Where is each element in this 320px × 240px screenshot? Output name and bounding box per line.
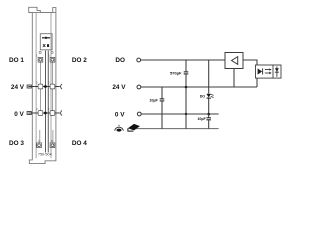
clamp hole right below LED box	[51, 51, 53, 53]
wire optocoupler to 24V rail	[256, 78, 258, 87]
inner left wall	[35, 13, 37, 158]
module body outline	[29, 7, 56, 158]
svg-text:DO: DO	[200, 94, 206, 98]
status LED diode symbol	[207, 94, 214, 98]
wire right terminal column rows 2-3	[51, 89, 53, 111]
wire vertical C2 branch	[161, 87, 163, 129]
0V feed plug symbol	[27, 112, 31, 115]
terminal circle 0V	[137, 112, 141, 116]
module foot (DIN rail)	[29, 159, 56, 164]
terminal DO2 (pin 5)	[50, 57, 55, 62]
module top edge	[29, 11, 56, 13]
wire stub to DO4 terminal	[52, 130, 54, 143]
svg-text:24 V: 24 V	[11, 84, 25, 91]
svg-text:DO 1: DO 1	[9, 57, 24, 64]
wire left terminal column rows 2-3	[39, 89, 41, 111]
wire vertical LED/C3 branch	[208, 60, 210, 129]
wire right terminal column rows 1-2	[51, 62, 53, 84]
svg-text:570pF: 570pF	[170, 70, 182, 75]
LED marks row B	[43, 44, 49, 47]
svg-text:750-504: 750-504	[38, 152, 52, 156]
capacitor C1 570pF plates	[184, 72, 189, 74]
terminal DO1 (pin 1)	[38, 57, 43, 62]
junction dot 0V internal contact	[44, 112, 47, 115]
terminal DO4 (pin 8)	[50, 143, 55, 148]
optocoupler U2	[256, 65, 282, 78]
junction dot 24V/C1 branch	[185, 86, 188, 89]
terminal 24V left (pin 2)	[38, 84, 43, 89]
wire stub to DO3 terminal	[39, 130, 41, 143]
svg-text:DO 3: DO 3	[9, 140, 24, 147]
central contact channel line b	[47, 51, 49, 153]
junction dot 0V/LED branch	[207, 113, 210, 116]
wire driver to 24V rail	[233, 69, 235, 88]
output driver U1	[225, 53, 243, 69]
wire bottom shield rail	[136, 128, 219, 130]
opto LED	[258, 68, 263, 74]
svg-text:10µF: 10µF	[149, 98, 158, 102]
earth electrode symbol	[115, 125, 124, 132]
terminal circle 24V	[137, 85, 141, 89]
opto receiver diode	[276, 66, 278, 77]
terminal DO3 (pin 4)	[37, 143, 42, 148]
junction dot 0V/C1 branch	[185, 113, 187, 115]
0V through line (power jumper)	[28, 112, 60, 114]
wire driver output to optocoupler	[243, 60, 257, 65]
svg-text:DO 4: DO 4	[72, 140, 87, 147]
wire 0V rail	[141, 113, 218, 115]
0V jumper arc to next module	[61, 110, 62, 115]
inner right wall	[50, 13, 52, 158]
24V through line (power jumper)	[28, 86, 60, 88]
svg-text:DO: DO	[115, 57, 125, 64]
capacitor C3 10uF plates	[206, 118, 211, 120]
terminal circle DO	[137, 58, 141, 62]
central contact channel line a	[45, 51, 47, 153]
wire DO rail	[141, 59, 225, 61]
wire vertical C1 branch	[185, 60, 187, 129]
svg-text:24 V: 24 V	[112, 84, 126, 91]
svg-text:10µF: 10µF	[197, 117, 206, 121]
opto light arrows	[265, 70, 270, 73]
terminal 0V left (pin 3)	[38, 111, 43, 116]
junction dot 24V internal contact	[44, 85, 47, 88]
clamp hole left below LED box	[39, 51, 41, 53]
wire left terminal column rows 1-2	[39, 62, 41, 84]
terminal 24V right (pin 6)	[50, 84, 55, 89]
svg-text:DO 2: DO 2	[72, 57, 87, 64]
LED marks row A	[42, 37, 50, 39]
24V jumper arc to next module	[61, 84, 62, 89]
wire 24V rail	[141, 86, 257, 88]
svg-text:0 V: 0 V	[14, 111, 24, 118]
24V feed plug symbol	[27, 85, 31, 88]
capacitor C2 10uF plates	[160, 99, 165, 101]
terminal 0V right (pin 7)	[50, 111, 55, 116]
svg-text:0 V: 0 V	[115, 111, 125, 118]
power jumper flag symbol	[128, 124, 140, 131]
LED indicator box	[40, 34, 52, 50]
